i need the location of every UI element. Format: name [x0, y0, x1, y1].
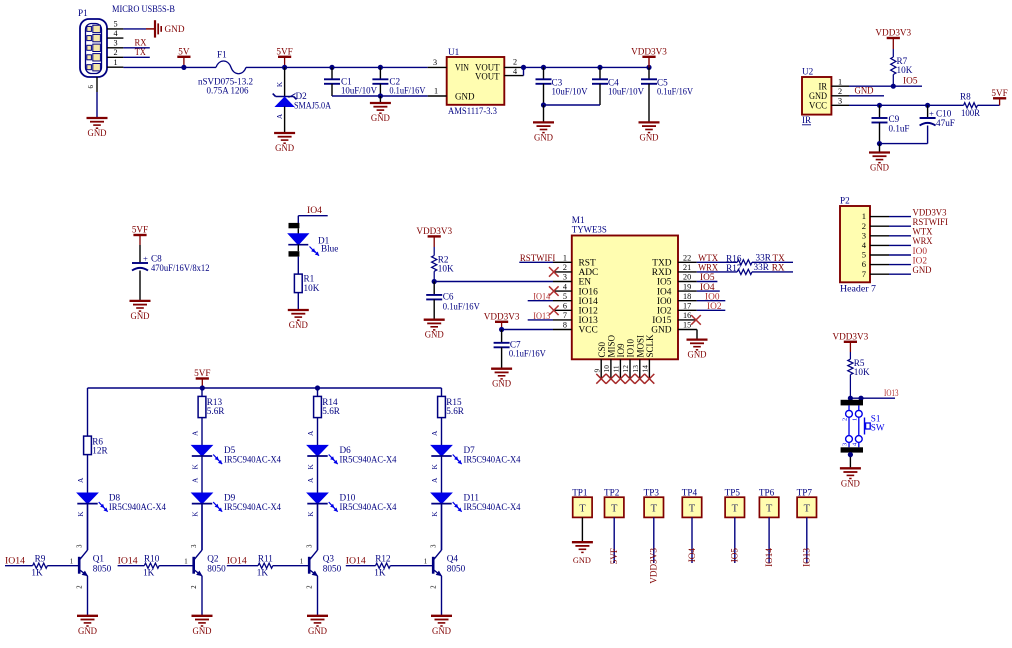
svg-text:IR: IR [802, 115, 812, 125]
svg-text:VDD3V3: VDD3V3 [833, 331, 869, 341]
svg-text:IO4: IO4 [657, 287, 672, 297]
svg-text:+: + [143, 254, 148, 264]
svg-text:100R: 100R [961, 108, 981, 118]
svg-text:T: T [651, 504, 658, 515]
svg-text:Q3: Q3 [323, 554, 335, 564]
svg-text:6: 6 [563, 302, 567, 311]
svg-text:2: 2 [563, 263, 567, 272]
svg-text:TX: TX [135, 47, 146, 57]
svg-text:GND: GND [193, 626, 212, 636]
svg-text:8: 8 [563, 321, 567, 330]
svg-text:R8: R8 [960, 91, 971, 101]
svg-text:TP7: TP7 [797, 488, 813, 498]
svg-text:17: 17 [683, 302, 691, 311]
svg-text:5: 5 [563, 292, 567, 301]
svg-text:IO5: IO5 [700, 272, 715, 282]
svg-text:TXD: TXD [652, 259, 671, 269]
svg-text:5VF: 5VF [609, 548, 619, 564]
svg-text:GND: GND [534, 132, 553, 142]
svg-text:6: 6 [862, 259, 867, 269]
svg-text:IO14: IO14 [533, 292, 550, 302]
svg-text:IO5: IO5 [730, 548, 740, 563]
svg-text:IO15: IO15 [652, 316, 672, 326]
svg-text:K: K [191, 464, 200, 470]
svg-text:GND: GND [275, 143, 294, 153]
svg-text:T: T [804, 504, 811, 515]
svg-text:IO14: IO14 [5, 556, 25, 566]
svg-text:3: 3 [430, 544, 437, 548]
svg-text:TP3: TP3 [644, 488, 660, 498]
svg-text:IO0: IO0 [657, 297, 672, 307]
svg-text:7: 7 [563, 311, 567, 320]
svg-text:ADC: ADC [579, 268, 599, 278]
svg-text:3: 3 [838, 97, 842, 106]
svg-text:IO16: IO16 [579, 287, 599, 297]
svg-text:IO13: IO13 [884, 388, 899, 398]
svg-text:3: 3 [862, 230, 866, 240]
svg-text:0.75A 1206: 0.75A 1206 [207, 86, 249, 96]
svg-text:MISO: MISO [607, 334, 617, 357]
svg-text:VIN: VIN [455, 63, 469, 73]
svg-text:WRX: WRX [698, 263, 718, 273]
svg-text:Header 7: Header 7 [840, 284, 876, 294]
svg-text:VDD3V3: VDD3V3 [913, 207, 947, 217]
svg-text:K: K [430, 464, 439, 470]
svg-text:12R: 12R [92, 446, 108, 456]
svg-text:10K: 10K [438, 264, 454, 274]
svg-text:IR5C940AC-X4: IR5C940AC-X4 [340, 454, 397, 464]
svg-text:VDD3V3: VDD3V3 [416, 226, 452, 236]
svg-text:CS0: CS0 [597, 341, 607, 357]
svg-text:3: 3 [191, 544, 198, 548]
svg-text:13: 13 [631, 365, 640, 373]
svg-text:4: 4 [862, 240, 867, 250]
svg-text:1: 1 [434, 87, 438, 96]
svg-text:GND: GND [855, 86, 874, 96]
svg-text:4: 4 [563, 282, 567, 291]
svg-text:2: 2 [113, 48, 117, 57]
svg-text:5.6R: 5.6R [446, 406, 464, 416]
svg-text:8050: 8050 [93, 564, 112, 574]
svg-text:20: 20 [683, 273, 691, 282]
svg-text:GND: GND [651, 326, 672, 336]
svg-text:10K: 10K [304, 283, 320, 293]
svg-text:IR5C940AC-X4: IR5C940AC-X4 [464, 454, 521, 464]
svg-text:IO14: IO14 [764, 548, 774, 567]
svg-text:SW: SW [871, 423, 885, 433]
svg-text:GND: GND [308, 626, 327, 636]
svg-text:A: A [306, 430, 315, 436]
svg-text:3: 3 [76, 544, 83, 548]
svg-text:3: 3 [113, 39, 117, 48]
svg-text:19: 19 [683, 282, 691, 291]
svg-text:GND: GND [913, 265, 932, 275]
svg-text:4: 4 [113, 29, 117, 38]
svg-text:2: 2 [76, 585, 83, 589]
svg-text:5.6R: 5.6R [322, 406, 340, 416]
svg-text:GND: GND [841, 478, 860, 488]
svg-text:10K: 10K [854, 367, 870, 377]
svg-text:R10: R10 [144, 554, 160, 564]
svg-text:1K: 1K [31, 568, 43, 578]
svg-text:IO14: IO14 [227, 556, 247, 566]
svg-text:Q2: Q2 [207, 554, 219, 564]
svg-text:2: 2 [862, 221, 866, 231]
svg-text:5V: 5V [178, 46, 190, 56]
svg-text:10K: 10K [897, 65, 913, 75]
svg-text:7: 7 [862, 269, 867, 279]
svg-text:F1: F1 [217, 50, 227, 60]
svg-text:RXD: RXD [652, 268, 672, 278]
svg-text:SCLK: SCLK [645, 334, 655, 358]
svg-text:VOUT: VOUT [475, 73, 500, 83]
svg-text:TX: TX [773, 253, 786, 263]
svg-text:0.1uF/16V: 0.1uF/16V [443, 301, 480, 311]
svg-text:AMS1117-3.3: AMS1117-3.3 [448, 106, 497, 116]
svg-text:470uF/16V/8x12: 470uF/16V/8x12 [151, 263, 210, 273]
svg-text:IO14: IO14 [579, 297, 599, 307]
svg-text:C6: C6 [443, 291, 454, 301]
svg-text:22: 22 [683, 254, 691, 263]
svg-text:11: 11 [612, 365, 621, 372]
svg-text:U1: U1 [448, 47, 460, 57]
svg-text:TP1: TP1 [572, 488, 588, 498]
svg-text:T: T [689, 504, 696, 515]
svg-text:VCC: VCC [809, 102, 827, 112]
svg-text:1: 1 [70, 558, 73, 565]
svg-text:VDD3V3: VDD3V3 [631, 46, 667, 56]
svg-text:5VF: 5VF [132, 225, 148, 235]
svg-text:8050: 8050 [447, 564, 466, 574]
svg-text:IO4: IO4 [307, 205, 322, 215]
svg-text:5: 5 [113, 20, 117, 29]
svg-text:1K: 1K [374, 568, 386, 578]
svg-text:R9: R9 [35, 554, 46, 564]
svg-text:GND: GND [165, 24, 185, 34]
svg-text:GND: GND [870, 163, 889, 173]
svg-text:MOSI: MOSI [635, 335, 645, 358]
svg-text:8050: 8050 [323, 564, 342, 574]
svg-text:C10: C10 [936, 109, 952, 119]
svg-text:A: A [191, 430, 200, 436]
svg-text:K: K [306, 464, 315, 470]
svg-text:+: + [929, 108, 934, 118]
svg-text:EN: EN [579, 278, 592, 288]
svg-text:3: 3 [563, 273, 567, 282]
svg-text:IO12: IO12 [579, 307, 599, 317]
svg-text:TP5: TP5 [725, 488, 741, 498]
svg-text:IO13: IO13 [533, 311, 550, 321]
svg-text:IO14: IO14 [118, 556, 138, 566]
svg-text:1: 1 [113, 58, 117, 67]
svg-text:IO2: IO2 [913, 255, 928, 265]
svg-text:GND: GND [432, 626, 451, 636]
svg-text:IO2: IO2 [657, 307, 672, 317]
svg-text:4: 4 [513, 67, 517, 76]
svg-text:GND: GND [492, 379, 511, 389]
svg-text:5VF: 5VF [991, 88, 1007, 98]
svg-text:WTX: WTX [913, 227, 933, 237]
svg-text:3: 3 [842, 443, 849, 446]
svg-text:3: 3 [306, 544, 313, 548]
svg-text:K: K [306, 511, 315, 517]
svg-text:33R: 33R [756, 253, 772, 263]
svg-text:IO5: IO5 [657, 278, 672, 288]
svg-text:10uF/10V: 10uF/10V [552, 87, 588, 97]
svg-text:GND: GND [640, 132, 659, 142]
svg-text:IO5: IO5 [903, 76, 918, 86]
svg-text:16: 16 [683, 311, 691, 320]
svg-text:MICRO USB5S-B: MICRO USB5S-B [112, 4, 175, 14]
svg-text:RSTWIFI: RSTWIFI [913, 217, 948, 227]
svg-text:47uF: 47uF [936, 118, 955, 128]
svg-text:0.1uF/16V: 0.1uF/16V [657, 87, 693, 97]
svg-text:GND: GND [289, 320, 308, 330]
svg-text:5.6R: 5.6R [207, 406, 225, 416]
svg-text:21: 21 [683, 263, 691, 272]
svg-text:IR5C940AC-X4: IR5C940AC-X4 [464, 502, 521, 512]
svg-text:IR5C940AC-X4: IR5C940AC-X4 [224, 454, 281, 464]
svg-text:M1: M1 [572, 215, 585, 225]
svg-text:VDD3V3: VDD3V3 [649, 548, 659, 584]
svg-text:U2: U2 [802, 67, 814, 77]
svg-text:12: 12 [621, 365, 630, 373]
svg-text:TYWE3S: TYWE3S [572, 225, 607, 235]
svg-text:VCC: VCC [579, 326, 598, 336]
svg-text:K: K [275, 81, 284, 87]
svg-text:1: 1 [851, 418, 858, 421]
svg-text:TP6: TP6 [759, 488, 775, 498]
svg-text:IR5C940AC-X4: IR5C940AC-X4 [109, 502, 166, 512]
svg-text:GND: GND [78, 626, 97, 636]
svg-text:14: 14 [641, 365, 650, 373]
svg-text:IO14: IO14 [346, 556, 366, 566]
svg-text:1K: 1K [257, 568, 269, 578]
svg-text:P2: P2 [840, 196, 850, 206]
svg-text:K: K [76, 511, 85, 517]
svg-text:A: A [430, 477, 439, 483]
svg-text:T: T [579, 504, 586, 515]
svg-text:2: 2 [513, 58, 517, 67]
svg-text:2: 2 [838, 87, 842, 96]
svg-text:5: 5 [862, 250, 866, 260]
svg-text:1: 1 [424, 558, 427, 565]
svg-text:GND: GND [688, 350, 707, 360]
svg-text:K: K [191, 511, 200, 517]
svg-text:A: A [430, 430, 439, 436]
svg-text:IO9: IO9 [616, 343, 626, 357]
svg-text:1: 1 [300, 558, 303, 565]
svg-text:K: K [430, 511, 439, 517]
svg-text:RX: RX [772, 263, 785, 273]
svg-text:10uF/10V: 10uF/10V [608, 87, 644, 97]
svg-text:1: 1 [862, 211, 866, 221]
svg-text:IO10: IO10 [626, 339, 636, 358]
svg-text:GND: GND [425, 330, 444, 340]
svg-text:GND: GND [455, 92, 475, 102]
svg-text:T: T [766, 504, 773, 515]
svg-text:1: 1 [838, 78, 842, 87]
svg-text:T: T [611, 504, 618, 515]
svg-text:10uF/10V: 10uF/10V [341, 86, 377, 96]
svg-text:2: 2 [306, 585, 313, 589]
svg-text:18: 18 [683, 292, 691, 301]
svg-text:2: 2 [842, 418, 849, 421]
svg-text:A: A [76, 477, 85, 483]
svg-text:TP2: TP2 [604, 488, 620, 498]
svg-text:Q1: Q1 [93, 554, 105, 564]
svg-text:IR5C940AC-X4: IR5C940AC-X4 [340, 502, 397, 512]
svg-text:9: 9 [592, 369, 601, 373]
svg-text:P1: P1 [78, 8, 88, 18]
svg-text:0.1uF/16V: 0.1uF/16V [389, 86, 425, 96]
svg-text:T: T [732, 504, 739, 515]
svg-text:5VF: 5VF [276, 46, 292, 56]
svg-text:GND: GND [131, 311, 150, 321]
svg-text:5VF: 5VF [194, 368, 210, 378]
svg-text:VDD3V3: VDD3V3 [484, 311, 520, 321]
svg-text:1: 1 [184, 558, 187, 565]
svg-text:IO4: IO4 [687, 548, 697, 563]
svg-text:8050: 8050 [207, 564, 226, 574]
svg-text:A: A [191, 477, 200, 483]
svg-text:IO0: IO0 [705, 291, 720, 301]
svg-text:VDD3V3: VDD3V3 [875, 28, 911, 38]
svg-text:1K: 1K [143, 568, 155, 578]
svg-text:15: 15 [683, 321, 691, 330]
svg-text:WRX: WRX [913, 236, 933, 246]
svg-text:10: 10 [602, 365, 611, 373]
svg-text:IO2: IO2 [707, 301, 722, 311]
svg-text:IO13: IO13 [802, 548, 812, 567]
svg-text:6: 6 [88, 85, 95, 89]
svg-text:GND: GND [371, 113, 390, 123]
svg-text:RX: RX [135, 38, 147, 48]
svg-text:R11: R11 [258, 554, 273, 564]
svg-text:2: 2 [191, 585, 198, 589]
svg-text:R12: R12 [375, 554, 391, 564]
svg-text:IO13: IO13 [579, 316, 599, 326]
svg-text:IO0: IO0 [913, 246, 928, 256]
svg-text:RSTWIFI: RSTWIFI [520, 253, 555, 263]
svg-text:1: 1 [563, 254, 567, 263]
svg-text:TP4: TP4 [682, 488, 698, 498]
svg-text:A: A [275, 113, 284, 119]
svg-text:WTX: WTX [698, 253, 718, 263]
svg-text:IR: IR [819, 82, 828, 92]
svg-text:0.1uF: 0.1uF [889, 123, 910, 133]
svg-text:33R: 33R [754, 262, 770, 272]
svg-text:GND: GND [88, 128, 107, 138]
svg-text:IR5C940AC-X4: IR5C940AC-X4 [224, 502, 281, 512]
svg-text:Blue: Blue [321, 243, 338, 253]
svg-text:SMAJ5.0A: SMAJ5.0A [294, 100, 331, 110]
svg-text:A: A [306, 477, 315, 483]
svg-text:GND: GND [573, 555, 591, 565]
svg-text:2: 2 [430, 585, 437, 589]
svg-text:0.1uF/16V: 0.1uF/16V [509, 348, 546, 358]
svg-text:3: 3 [433, 58, 437, 67]
svg-text:IO4: IO4 [700, 282, 715, 292]
svg-text:Q4: Q4 [447, 554, 459, 564]
svg-text:RST: RST [579, 259, 596, 269]
